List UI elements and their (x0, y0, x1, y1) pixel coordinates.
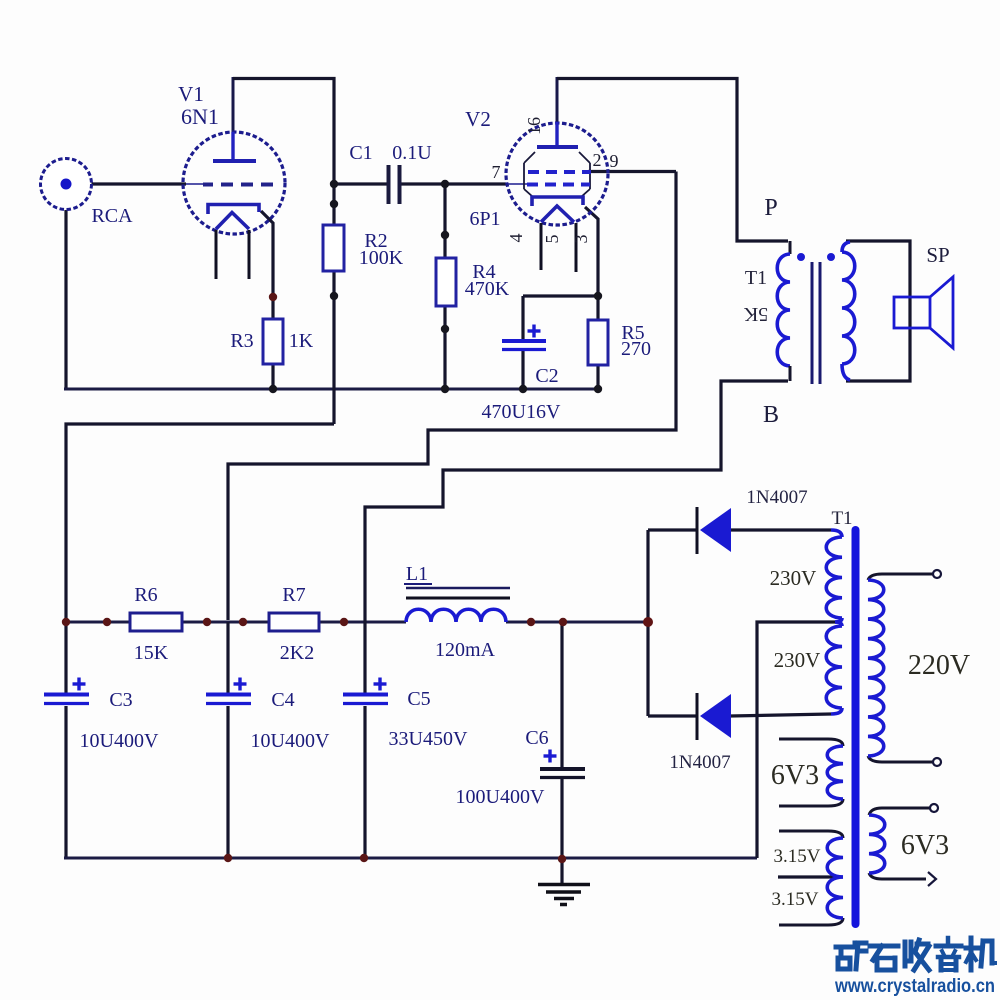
svg-text:100U400V: 100U400V (456, 786, 545, 808)
svg-text:L1: L1 (406, 563, 428, 585)
svg-text:www.crystalradio.cn: www.crystalradio.cn (834, 976, 995, 997)
svg-text:C6: C6 (525, 727, 548, 749)
svg-text:C1: C1 (349, 142, 372, 164)
svg-text:B: B (763, 402, 779, 428)
svg-text:230V: 230V (774, 648, 821, 672)
svg-text:1N4007: 1N4007 (746, 487, 807, 508)
svg-text:470U16V: 470U16V (482, 401, 561, 423)
svg-text:R3: R3 (230, 330, 253, 352)
svg-text:C5: C5 (407, 688, 430, 710)
svg-text:5: 5 (542, 235, 562, 244)
svg-text:C4: C4 (271, 689, 294, 711)
svg-text:1K: 1K (289, 330, 314, 352)
svg-text:7: 7 (492, 162, 501, 182)
svg-text:R7: R7 (282, 584, 305, 606)
svg-text:C3: C3 (109, 689, 132, 711)
svg-text:2K2: 2K2 (280, 642, 314, 664)
svg-text:3: 3 (571, 235, 591, 244)
svg-text:470K: 470K (465, 278, 510, 300)
svg-text:6V3: 6V3 (901, 830, 949, 861)
svg-text:5K: 5K (743, 303, 768, 325)
svg-text:33U450V: 33U450V (389, 728, 468, 750)
svg-text:RCA: RCA (91, 205, 133, 227)
svg-text:10U400V: 10U400V (80, 730, 159, 752)
svg-text:10U400V: 10U400V (251, 730, 330, 752)
svg-text:9: 9 (610, 151, 619, 171)
svg-text:1N4007: 1N4007 (669, 752, 730, 773)
svg-text:270: 270 (621, 338, 651, 360)
svg-text:P: P (764, 195, 777, 221)
svg-text:3.15V: 3.15V (774, 846, 821, 867)
svg-text:6P1: 6P1 (469, 208, 500, 230)
svg-text:R6: R6 (134, 584, 157, 606)
svg-text:6V3: 6V3 (771, 760, 819, 791)
svg-text:T1: T1 (745, 267, 767, 289)
svg-text:120mA: 120mA (435, 639, 496, 661)
svg-text:C2: C2 (535, 365, 558, 387)
svg-text:230V: 230V (770, 566, 817, 590)
svg-text:0.1U: 0.1U (392, 142, 432, 164)
svg-text:4: 4 (506, 234, 526, 243)
svg-text:2: 2 (593, 150, 602, 170)
svg-text:V2: V2 (465, 107, 491, 131)
svg-text:SP: SP (926, 243, 949, 267)
svg-text:100K: 100K (359, 247, 404, 269)
svg-text:16: 16 (524, 117, 544, 135)
svg-text:V1: V1 (178, 82, 204, 106)
svg-text:T1: T1 (831, 508, 852, 529)
svg-text:3.15V: 3.15V (772, 889, 819, 910)
svg-text:220V: 220V (908, 650, 970, 681)
svg-text:6N1: 6N1 (181, 104, 219, 129)
svg-text:15K: 15K (134, 642, 169, 664)
